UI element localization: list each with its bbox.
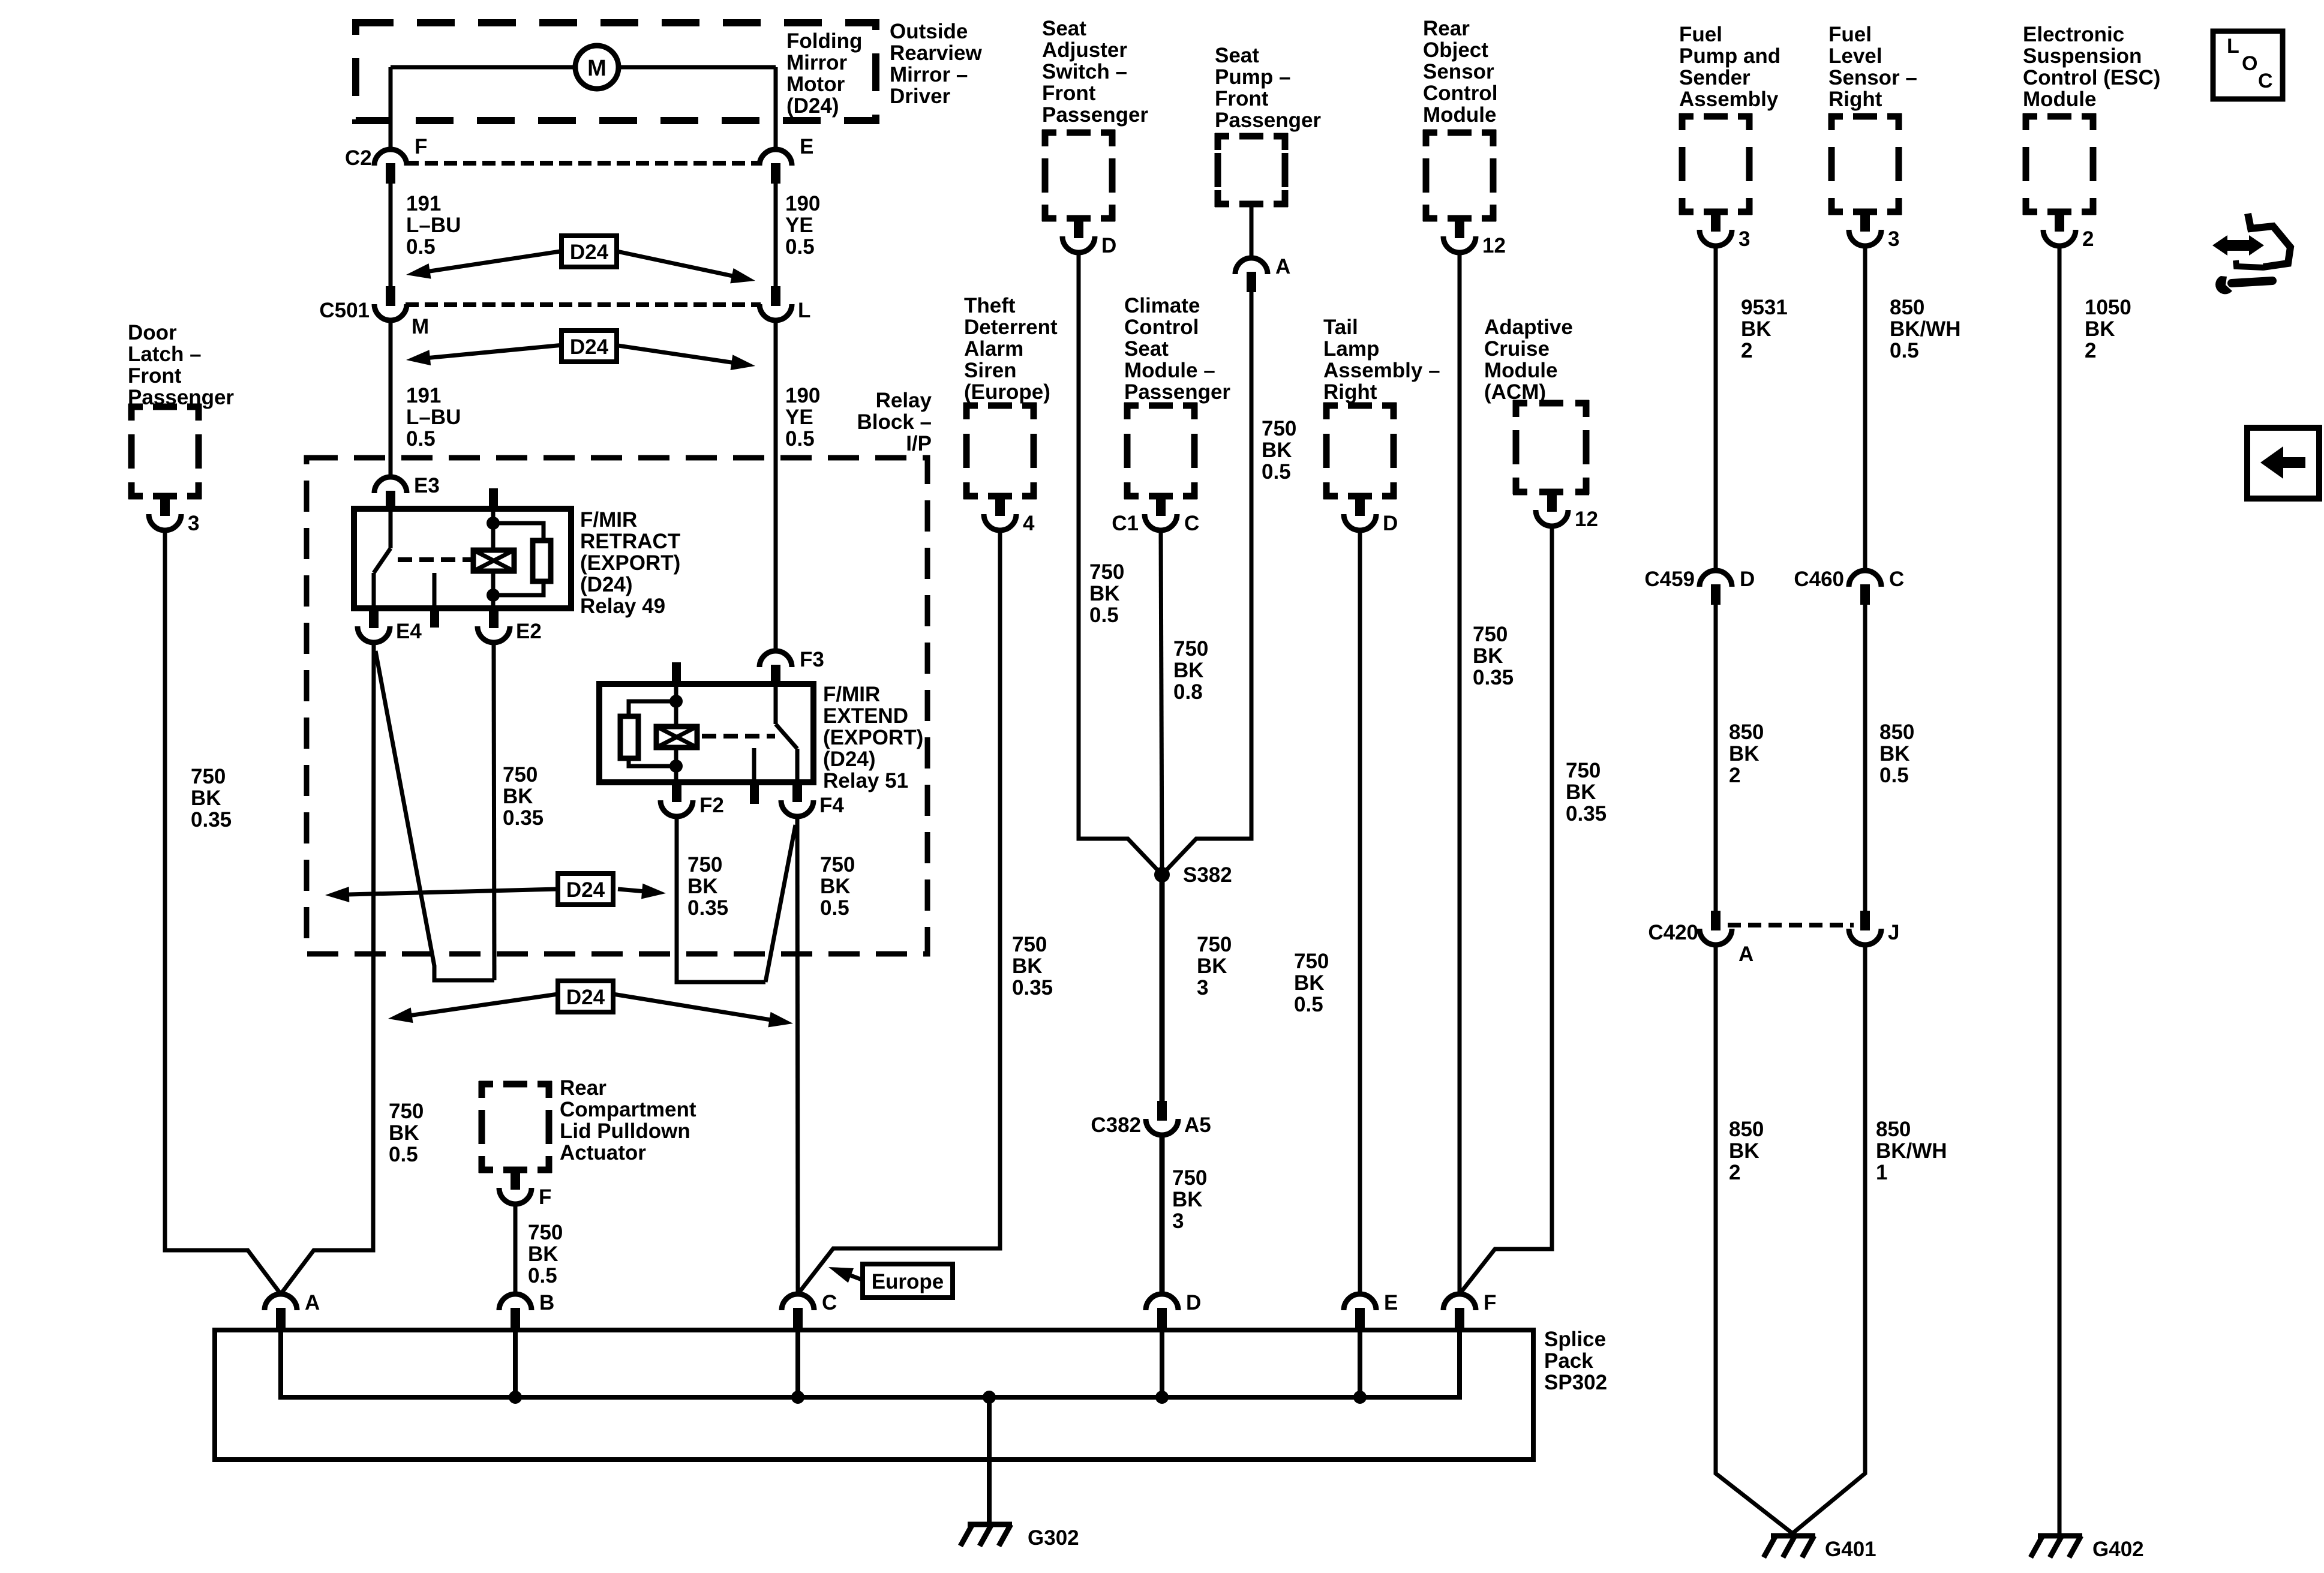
wire 750 BK 0.35 (theft siren to splice C, Europe)	[798, 530, 1000, 1294]
splice pack SP302 box	[215, 1330, 1533, 1460]
svg-text:BK: BK	[191, 786, 221, 810]
svg-text:2: 2	[2085, 339, 2096, 362]
svg-text:Sensor –: Sensor –	[1828, 66, 1917, 89]
svg-text:0.35: 0.35	[191, 808, 232, 831]
svg-text:BK: BK	[1879, 742, 1910, 766]
svg-text:D: D	[1740, 568, 1755, 591]
svg-text:C459: C459	[1644, 568, 1695, 591]
relay K51 parallel resistor branch	[629, 701, 676, 716]
svg-text:0.5: 0.5	[820, 896, 849, 920]
harness tag D24 (upper) with arrows	[424, 249, 576, 272]
svg-text:Rear: Rear	[560, 1076, 606, 1100]
svg-text:Door: Door	[128, 321, 177, 344]
relay K49 switch contact to E4	[372, 573, 376, 608]
rear object sensor module pin 12	[1455, 218, 1464, 238]
svg-text:C460: C460	[1794, 568, 1844, 591]
svg-text:750: 750	[1173, 637, 1208, 661]
svg-text:Driver: Driver	[890, 85, 951, 108]
component box: Fuel Pump and Sender Assembly (dashed)	[1679, 113, 1752, 215]
svg-text:Fuel: Fuel	[1828, 23, 1872, 46]
connector C420 pin A	[1711, 911, 1721, 930]
svg-text:M: M	[587, 56, 606, 81]
icon: mirror adjust arrow with wrench	[2212, 235, 2264, 256]
svg-text:BK: BK	[1741, 317, 1771, 341]
svg-text:Sensor: Sensor	[1423, 60, 1494, 83]
svg-text:3: 3	[1739, 227, 1750, 251]
wire: F4 diagonal loop branch	[765, 825, 795, 982]
wire 850 BK 2 (C420 to G401)	[1716, 945, 1792, 1533]
relay K51 pin F3	[759, 651, 792, 667]
svg-text:Mirror: Mirror	[786, 51, 848, 74]
fuel pump assembly pin 3	[1711, 212, 1721, 232]
splice bus tap E	[1358, 1328, 1362, 1397]
wire: motor loop left horizontal	[391, 65, 575, 70]
svg-text:SP302: SP302	[1544, 1371, 1607, 1394]
svg-text:Alarm: Alarm	[964, 337, 1023, 361]
svg-text:0.35: 0.35	[1473, 666, 1514, 689]
svg-text:750: 750	[1197, 933, 1232, 956]
svg-text:(Europe): (Europe)	[964, 380, 1050, 404]
svg-text:191: 191	[406, 384, 441, 407]
svg-text:2: 2	[2082, 227, 2094, 251]
svg-text:BK: BK	[1012, 954, 1043, 978]
svg-text:850: 850	[1879, 721, 1914, 744]
icon: LOC reference box	[2213, 31, 2283, 99]
wire 750 BK 3 (S382 to C382)	[1160, 875, 1165, 1101]
svg-text:0.5: 0.5	[1262, 460, 1291, 484]
relay K51 switch common from F3	[774, 684, 778, 724]
svg-text:2: 2	[1729, 764, 1740, 787]
connector C420 dashed mating line	[1728, 923, 1854, 927]
svg-text:850: 850	[1729, 721, 1764, 744]
wire 850 BK/WH 1 (C420 J to G401)	[1792, 945, 1865, 1533]
svg-text:12: 12	[1575, 508, 1598, 531]
svg-text:Relay 49: Relay 49	[580, 595, 665, 618]
relay K49 box F/MIR RETRACT	[354, 509, 571, 608]
svg-text:YE: YE	[785, 406, 813, 429]
relay K51 pin F4	[792, 782, 802, 802]
svg-text:Actuator: Actuator	[560, 1141, 646, 1164]
svg-text:Front: Front	[1042, 82, 1096, 105]
rear lid actuator pin F	[511, 1170, 520, 1190]
svg-text:Europe: Europe	[872, 1270, 944, 1293]
svg-text:Siren: Siren	[964, 359, 1017, 382]
svg-text:Mirror –: Mirror –	[890, 63, 968, 86]
svg-text:L–BU: L–BU	[406, 214, 461, 237]
svg-text:L: L	[2227, 35, 2239, 58]
svg-text:L–BU: L–BU	[406, 406, 461, 429]
component box: Tail Lamp Assembly - Right (dashed)	[1323, 403, 1397, 499]
splice S382	[1154, 867, 1170, 882]
svg-text:Fuel: Fuel	[1679, 23, 1722, 46]
svg-text:C1: C1	[1112, 512, 1139, 535]
svg-text:BK: BK	[528, 1242, 559, 1266]
connector C501 pin L	[771, 286, 780, 306]
svg-text:BK: BK	[1294, 971, 1325, 995]
relay K51 actuation dashed link	[702, 734, 775, 739]
svg-text:BK: BK	[1197, 954, 1227, 978]
component box: Seat Adjuster Switch (dashed)	[1042, 130, 1115, 221]
wire: motor loop right horizontal	[618, 65, 776, 70]
svg-text:BK: BK	[1173, 659, 1204, 682]
relay K51 coil (crossed box)	[656, 727, 697, 748]
svg-text:L: L	[798, 299, 810, 322]
svg-text:C: C	[1889, 568, 1904, 591]
relay K49 actuation dashed link	[398, 557, 472, 562]
svg-text:E: E	[1384, 1291, 1398, 1314]
svg-text:E4: E4	[396, 620, 422, 643]
svg-text:0.5: 0.5	[1890, 339, 1919, 362]
svg-text:BK: BK	[1729, 1139, 1759, 1163]
svg-text:D24: D24	[566, 986, 605, 1009]
svg-text:D24: D24	[570, 335, 609, 359]
svg-text:A: A	[305, 1291, 320, 1314]
svg-text:EXTEND: EXTEND	[823, 704, 908, 728]
svg-text:F2: F2	[699, 794, 724, 817]
svg-text:750: 750	[389, 1100, 424, 1123]
connector C459 pin D	[1700, 571, 1732, 587]
svg-text:0.5: 0.5	[1089, 604, 1119, 627]
wire 750 BK 0.5 (rear lid to splice B)	[514, 1204, 518, 1294]
svg-text:1: 1	[1876, 1161, 1887, 1184]
svg-text:A: A	[1275, 255, 1290, 278]
relay K49 switch common from E3	[389, 512, 393, 548]
svg-text:Latch –: Latch –	[128, 343, 202, 366]
seat pump pin A	[1235, 258, 1268, 274]
wire: F2 loop down-lead	[677, 816, 765, 982]
tag: Europe callout box with arrow	[845, 1274, 873, 1284]
svg-text:D: D	[1101, 234, 1116, 257]
svg-text:0.5: 0.5	[406, 427, 436, 451]
svg-text:Adjuster: Adjuster	[1042, 38, 1127, 62]
wire 1050 BK 2 (ESC to G402)	[2058, 246, 2062, 1533]
svg-text:J: J	[1888, 921, 1899, 944]
wire: motor right lead down to C2 pin E	[774, 67, 778, 149]
svg-text:750: 750	[1172, 1166, 1207, 1190]
svg-text:750: 750	[1566, 759, 1601, 782]
svg-text:G302: G302	[1028, 1526, 1079, 1550]
relay K49 coil lower wire and junction	[491, 571, 496, 608]
svg-text:Suspension: Suspension	[2023, 44, 2142, 68]
svg-text:I/P: I/P	[906, 432, 932, 455]
relay K49 pin E4	[369, 608, 379, 628]
component box: Outside Rearview Mirror - Driver (dashed)	[356, 23, 876, 121]
relay K51 unused middle contact stub	[752, 748, 756, 781]
svg-text:Module: Module	[2023, 88, 2096, 111]
relay K49 coil wire and junction	[491, 509, 496, 550]
svg-text:BK: BK	[389, 1121, 419, 1145]
wire 190 YE 0.5 (C2 E to C501 L)	[774, 184, 778, 286]
svg-text:Seat: Seat	[1042, 17, 1086, 40]
relay K51 coil lower wire and junction	[674, 748, 678, 782]
svg-text:A5: A5	[1184, 1113, 1211, 1137]
svg-text:Rear: Rear	[1423, 17, 1470, 40]
relay K51 coil feed stub (top)	[672, 662, 681, 685]
svg-text:Block –: Block –	[857, 410, 932, 434]
svg-text:C420: C420	[1648, 921, 1698, 944]
component box: Climate Control Seat Module (dashed)	[1124, 403, 1197, 499]
wire 750 BK 3 (C382 to splice D)	[1160, 1135, 1165, 1294]
svg-text:Splice: Splice	[1544, 1328, 1606, 1351]
svg-text:3: 3	[1172, 1209, 1184, 1233]
component box: Adaptive Cruise Module (dashed)	[1513, 400, 1589, 495]
svg-text:Seat: Seat	[1124, 337, 1169, 361]
svg-text:750: 750	[191, 765, 226, 788]
svg-text:D: D	[1186, 1291, 1201, 1314]
svg-text:S382: S382	[1183, 863, 1232, 887]
relay K51 box F/MIR EXTEND	[599, 684, 813, 782]
svg-text:Relay: Relay	[876, 389, 932, 412]
svg-text:Passenger: Passenger	[128, 386, 234, 409]
svg-text:Front: Front	[128, 364, 182, 388]
svg-text:4: 4	[1023, 512, 1035, 535]
svg-text:C: C	[2258, 70, 2273, 92]
svg-text:BK/WH: BK/WH	[1876, 1139, 1947, 1163]
svg-text:0.8: 0.8	[1173, 680, 1203, 704]
wire 750 BK 0.35 (ACM to splice F)	[1460, 526, 1552, 1294]
wire: E4 diagonal loop branch	[376, 651, 494, 980]
svg-text:750: 750	[1089, 560, 1124, 584]
splice bus tap to ground G302	[983, 1391, 996, 1404]
svg-text:750: 750	[503, 763, 538, 786]
connector C501 pin M	[386, 286, 395, 306]
svg-text:1050: 1050	[2085, 296, 2131, 319]
svg-text:0.35: 0.35	[503, 806, 544, 830]
wire 850 BK 0.5 (C460 to C420 J)	[1863, 605, 1867, 911]
svg-text:0.35: 0.35	[1566, 802, 1607, 825]
svg-text:C2: C2	[345, 146, 372, 170]
svg-text:Control: Control	[1124, 316, 1199, 339]
relay K49 parallel resistor branch	[493, 523, 544, 541]
harness tag D24 (second) with arrows	[424, 344, 576, 358]
svg-text:(D24): (D24)	[823, 748, 876, 771]
climate seat module pin C1-C	[1156, 496, 1166, 516]
splice bus tap B	[513, 1328, 518, 1397]
svg-text:Outside: Outside	[890, 20, 968, 43]
svg-text:Motor: Motor	[786, 73, 845, 96]
svg-text:Module: Module	[1423, 103, 1496, 127]
wire 191 L-BU 0.5 (C501 M to relay E3)	[389, 320, 393, 477]
door latch pin 3	[160, 496, 170, 516]
wire 190 YE 0.5 (C501 L to relay F3)	[774, 320, 778, 651]
component box: Relay Block - I/P (dashed)	[307, 458, 927, 954]
svg-text:Control: Control	[1423, 82, 1497, 105]
svg-text:9531: 9531	[1741, 296, 1788, 319]
adaptive cruise module pin 12	[1547, 492, 1557, 512]
connector C382 pin A5	[1157, 1101, 1167, 1121]
component box: Electronic Suspension Control Module (dashed)	[2023, 113, 2096, 215]
svg-text:0.5: 0.5	[785, 427, 815, 451]
wire 750 BK 0.5 (tail lamp to splice E)	[1358, 530, 1362, 1294]
svg-text:0.5: 0.5	[1294, 993, 1323, 1016]
svg-text:Right: Right	[1323, 380, 1377, 404]
relay K51 coil wire and junction	[674, 684, 678, 727]
svg-text:F: F	[539, 1185, 551, 1209]
svg-text:(EXPORT): (EXPORT)	[823, 726, 923, 749]
relay K49 unused middle contact stub	[433, 573, 437, 607]
svg-text:D: D	[1383, 512, 1398, 535]
svg-text:750: 750	[820, 853, 855, 876]
svg-text:F3: F3	[800, 648, 824, 671]
svg-text:E: E	[800, 135, 813, 158]
svg-text:D24: D24	[566, 878, 605, 902]
svg-text:2: 2	[1741, 339, 1752, 362]
svg-text:F/MIR: F/MIR	[823, 683, 880, 706]
svg-text:190: 190	[785, 192, 820, 215]
wire: F4 down-lead to splice C	[797, 816, 798, 1294]
component box: Rear Object Sensor Control Module (dashed)	[1423, 130, 1496, 221]
svg-text:Rearview: Rearview	[890, 41, 982, 65]
svg-text:Pump and: Pump and	[1679, 44, 1780, 68]
svg-text:BK: BK	[1089, 582, 1120, 605]
svg-text:Passenger: Passenger	[1215, 109, 1321, 132]
svg-text:Seat: Seat	[1215, 44, 1259, 67]
svg-text:Module –: Module –	[1124, 359, 1215, 382]
ground G401	[1764, 1536, 1815, 1557]
splice pack pin F	[1443, 1294, 1476, 1310]
svg-text:Assembly –: Assembly –	[1323, 359, 1440, 382]
wire 750 BK 0.5 (seat adjuster to S382)	[1079, 253, 1162, 875]
svg-text:Deterrent: Deterrent	[964, 316, 1058, 339]
svg-text:750: 750	[528, 1221, 563, 1244]
svg-text:BK: BK	[1172, 1188, 1203, 1211]
svg-text:Control (ESC): Control (ESC)	[2023, 66, 2160, 89]
svg-text:C501: C501	[319, 299, 370, 322]
svg-text:Front: Front	[1215, 87, 1269, 110]
svg-text:Climate: Climate	[1124, 294, 1200, 317]
svg-text:Cruise: Cruise	[1484, 337, 1550, 361]
component box: Theft Deterrent Alarm Siren (dashed)	[963, 403, 1037, 499]
splice pack pin D	[1146, 1294, 1178, 1310]
svg-text:3: 3	[1197, 976, 1208, 999]
seat adjuster pin D	[1074, 218, 1083, 238]
svg-text:Relay 51: Relay 51	[823, 769, 908, 792]
svg-text:E2: E2	[516, 620, 542, 643]
svg-text:Lamp: Lamp	[1323, 337, 1379, 361]
svg-text:BK: BK	[1473, 644, 1503, 668]
svg-text:Passenger: Passenger	[1124, 380, 1230, 404]
svg-text:F4: F4	[819, 794, 844, 817]
wire: E4 down-lead to splice A	[281, 643, 374, 1294]
svg-text:F: F	[415, 135, 427, 158]
svg-text:O: O	[2242, 52, 2257, 75]
svg-text:BK: BK	[1729, 742, 1759, 766]
wire: motor left lead down to C2 pin F	[389, 67, 393, 149]
connector C2 pin F	[374, 149, 407, 166]
svg-text:Theft: Theft	[964, 294, 1016, 317]
relay K51 switch blade	[776, 724, 797, 749]
splice pack pin C	[782, 1294, 814, 1310]
wire 750 BK 0.5 (seat pump to S382)	[1162, 292, 1251, 875]
svg-text:2: 2	[1729, 1161, 1740, 1184]
svg-text:750: 750	[1473, 623, 1508, 646]
ESC module pin 2	[2055, 212, 2064, 232]
svg-text:0.5: 0.5	[1879, 764, 1909, 787]
svg-text:BK/WH: BK/WH	[1890, 317, 1961, 341]
svg-text:G402: G402	[2092, 1538, 2144, 1561]
relay K51 switch contact to F4	[795, 749, 800, 782]
wire 750 BK 0.35 (rear object sensor to splice F)	[1458, 253, 1462, 1294]
svg-text:E3: E3	[414, 474, 440, 497]
theft siren pin 4	[995, 496, 1005, 516]
wire 850 BK/WH 0.5 (fuel level to C460)	[1863, 246, 1867, 571]
svg-text:Right: Right	[1828, 88, 1882, 111]
svg-text:191: 191	[406, 192, 441, 215]
svg-text:BK: BK	[1566, 781, 1596, 804]
wire 191 L-BU 0.5 (C2 F to C501 M)	[389, 184, 393, 286]
splice pack pin B	[499, 1294, 532, 1310]
svg-text:Module: Module	[1484, 359, 1557, 382]
svg-text:3: 3	[1888, 227, 1899, 251]
connector C420 pin J	[1860, 911, 1870, 930]
svg-text:750: 750	[1294, 950, 1329, 973]
svg-text:12: 12	[1482, 234, 1506, 257]
svg-text:850: 850	[1876, 1118, 1911, 1141]
svg-text:BK: BK	[1262, 439, 1292, 462]
svg-text:Adaptive: Adaptive	[1484, 316, 1573, 339]
svg-text:G401: G401	[1825, 1538, 1876, 1561]
svg-text:750: 750	[1262, 417, 1296, 440]
svg-text:Assembly: Assembly	[1679, 88, 1779, 111]
wire: seat pump lead to pin A	[1250, 207, 1254, 258]
svg-text:C: C	[822, 1291, 837, 1314]
svg-text:Pump –: Pump –	[1215, 65, 1290, 89]
relay K49 coil (crossed box)	[473, 550, 514, 571]
svg-text:Sender: Sender	[1679, 66, 1750, 89]
svg-text:Compartment: Compartment	[560, 1098, 696, 1121]
splice pack pin A	[265, 1294, 297, 1310]
svg-text:Tail: Tail	[1323, 316, 1358, 339]
svg-text:BK: BK	[687, 875, 718, 898]
svg-text:850: 850	[1729, 1118, 1764, 1141]
component box: Seat Pump - Front Passenger (dashed)	[1215, 133, 1288, 207]
svg-text:750: 750	[687, 853, 722, 876]
svg-text:(EXPORT): (EXPORT)	[580, 551, 680, 575]
connector C2 dashed line	[406, 161, 761, 166]
svg-text:M: M	[412, 315, 429, 338]
svg-text:Folding: Folding	[786, 29, 862, 53]
svg-text:BK: BK	[820, 875, 851, 898]
svg-text:(D24): (D24)	[580, 573, 633, 596]
svg-text:BK: BK	[503, 785, 533, 808]
svg-text:RETRACT: RETRACT	[580, 530, 680, 553]
svg-text:B: B	[539, 1291, 554, 1314]
svg-text:Switch –: Switch –	[1042, 60, 1127, 83]
wire 850 BK 2 (C459 to C420)	[1714, 605, 1718, 911]
ground G402	[2031, 1536, 2082, 1557]
svg-text:(D24): (D24)	[786, 94, 839, 118]
svg-text:Object: Object	[1423, 38, 1488, 62]
splice pack pin E	[1344, 1294, 1376, 1310]
svg-text:Pack: Pack	[1544, 1349, 1593, 1373]
motor M1 circle (folding mirror motor)	[575, 46, 618, 89]
svg-text:850: 850	[1890, 296, 1924, 319]
svg-text:190: 190	[785, 384, 820, 407]
svg-text:C: C	[1184, 512, 1199, 535]
tail lamp pin D	[1355, 496, 1365, 516]
relay K49 switch blade	[374, 548, 391, 573]
relay K49 pin E3	[374, 477, 407, 493]
connector C460 pin C	[1849, 571, 1881, 587]
icon: back navigation arrow box	[2247, 428, 2319, 499]
svg-text:F: F	[1484, 1291, 1496, 1314]
fuel level sensor pin 3	[1860, 212, 1870, 232]
wire: E2 loop down-lead	[494, 643, 494, 980]
relay K49 coil feed stub (top)	[489, 488, 498, 510]
splice bus tap C	[795, 1328, 800, 1397]
svg-text:0.35: 0.35	[1012, 976, 1053, 999]
svg-text:YE: YE	[785, 214, 813, 237]
